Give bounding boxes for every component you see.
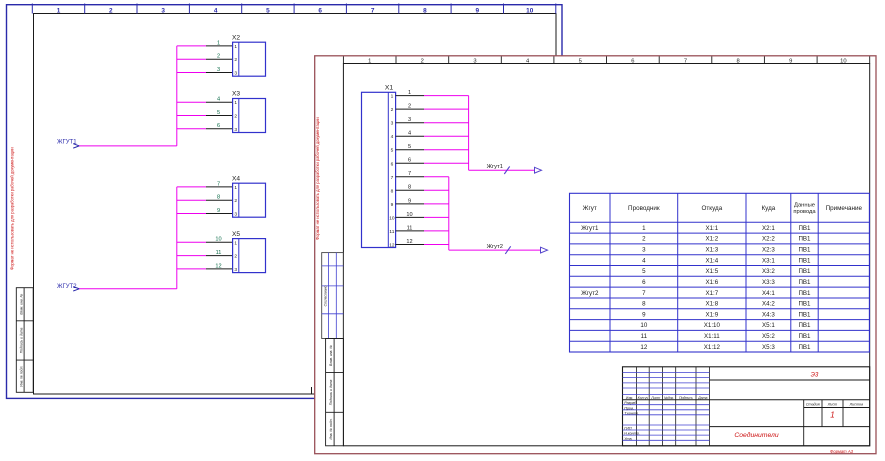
svg-text:Жгут2: Жгут2 — [487, 244, 503, 250]
wire 1 harness to X2 pin — [177, 40, 233, 46]
svg-text:9: 9 — [217, 208, 220, 214]
svg-text:7: 7 — [642, 290, 646, 297]
svg-text:Жгут2: Жгут2 — [581, 290, 599, 297]
svg-text:Подпись и дата: Подпись и дата — [19, 327, 23, 353]
svg-text:X5:1: X5:1 — [762, 322, 775, 329]
svg-text:Пров.: Пров. — [624, 406, 634, 410]
svg-text:1: 1 — [234, 240, 237, 246]
svg-text:ПВ1: ПВ1 — [798, 301, 811, 308]
svg-text:3: 3 — [234, 267, 237, 273]
harness wire Жгут2 with label, slash and arrow — [449, 244, 548, 254]
svg-text:9: 9 — [408, 198, 411, 204]
wire 4 harness to X3 pin — [177, 97, 233, 103]
svg-text:5: 5 — [217, 110, 220, 116]
svg-text:ПВ1: ПВ1 — [798, 225, 811, 232]
svg-text:5: 5 — [266, 8, 270, 15]
svg-text:6: 6 — [642, 279, 646, 286]
svg-text:11: 11 — [216, 250, 222, 256]
svg-text:2: 2 — [109, 8, 113, 15]
svg-text:ПВ1: ПВ1 — [798, 268, 811, 275]
svg-text:5: 5 — [642, 268, 646, 275]
svg-text:8: 8 — [217, 195, 220, 201]
svg-text:1: 1 — [234, 185, 237, 191]
svg-text:ГИП: ГИП — [624, 427, 632, 431]
svg-text:ПВ1: ПВ1 — [798, 322, 811, 329]
svg-text:7: 7 — [371, 8, 375, 15]
svg-text:7: 7 — [391, 175, 394, 181]
svg-text:провода: провода — [793, 209, 816, 215]
title block header texts — [624, 396, 863, 441]
svg-text:Подпись: Подпись — [679, 396, 693, 400]
svg-text:Формат А3: Формат А3 — [830, 449, 854, 454]
svg-text:8: 8 — [423, 8, 427, 15]
svg-text:Взам. инв. №: Взам. инв. № — [329, 345, 333, 366]
wire 1 X1 pin 1 to harness — [396, 90, 469, 96]
svg-text:10: 10 — [526, 8, 534, 15]
svg-text:X3:2: X3:2 — [762, 268, 775, 275]
svg-text:Взам. инв. №: Взам. инв. № — [19, 293, 23, 314]
svg-text:X1:2: X1:2 — [705, 236, 718, 243]
svg-text:Изм.: Изм. — [626, 396, 633, 400]
svg-text:7: 7 — [684, 58, 687, 64]
back sheet inner frame (black) — [34, 14, 557, 395]
svg-text:X4:2: X4:2 — [762, 301, 775, 308]
svg-text:1: 1 — [234, 100, 237, 106]
svg-text:Т.контр.: Т.контр. — [624, 411, 639, 415]
svg-text:X1:6: X1:6 — [705, 279, 718, 286]
svg-text:Жгут: Жгут — [583, 205, 597, 212]
svg-text:3: 3 — [642, 247, 646, 254]
svg-text:ЖГУТ1: ЖГУТ1 — [57, 140, 77, 146]
svg-text:X5: X5 — [232, 231, 240, 238]
svg-text:X2:3: X2:3 — [762, 247, 775, 254]
wire 10 harness to X5 pin — [177, 237, 233, 243]
svg-text:Лист: Лист — [827, 403, 838, 407]
svg-text:X5:2: X5:2 — [762, 333, 775, 340]
node ЖГУТ2 arrow — [73, 287, 79, 291]
svg-text:ПВ1: ПВ1 — [798, 311, 811, 318]
svg-text:6: 6 — [631, 58, 634, 64]
wire 2 X1 pin 2 to harness — [396, 104, 469, 110]
svg-text:1: 1 — [408, 90, 411, 96]
wiring table grid — [570, 193, 870, 352]
svg-text:X2:1: X2:1 — [762, 225, 775, 232]
wire 6 X1 pin 6 to harness — [396, 158, 469, 164]
svg-text:2: 2 — [391, 107, 394, 113]
wire 7 harness to X4 pin — [177, 181, 233, 187]
svg-text:Проводник: Проводник — [628, 205, 660, 212]
svg-text:Разраб.: Разраб. — [624, 401, 637, 405]
svg-text:6: 6 — [217, 123, 220, 129]
svg-text:X3:3: X3:3 — [762, 279, 775, 286]
svg-text:X3: X3 — [232, 91, 240, 98]
front sheet inner frame (black) — [343, 64, 869, 446]
svg-text:4: 4 — [217, 97, 220, 103]
svg-text:Дата: Дата — [697, 396, 707, 400]
svg-text:5: 5 — [408, 144, 411, 150]
svg-text:10: 10 — [640, 322, 647, 329]
svg-text:X1:7: X1:7 — [705, 290, 718, 297]
wire 2 harness to X2 pin — [177, 54, 233, 60]
svg-text:X4:1: X4:1 — [762, 290, 775, 297]
svg-text:ПВ1: ПВ1 — [798, 247, 811, 254]
wiring table header — [583, 203, 863, 216]
svg-text:2: 2 — [234, 198, 237, 204]
connector X3 — [232, 91, 266, 133]
back sheet title block edge — [311, 387, 313, 394]
svg-text:Соединители: Соединители — [734, 431, 778, 439]
svg-text:4: 4 — [391, 134, 394, 140]
title block frame — [623, 367, 870, 446]
back sheet outer border (blue) — [7, 5, 563, 399]
svg-text:8: 8 — [391, 188, 394, 194]
svg-text:12: 12 — [406, 239, 412, 245]
svg-text:1: 1 — [368, 58, 371, 64]
svg-text:3: 3 — [217, 67, 220, 73]
svg-text:8: 8 — [642, 301, 646, 308]
wire 4 X1 pin 4 to harness — [396, 131, 469, 137]
svg-text:1: 1 — [642, 225, 646, 232]
svg-text:X5:3: X5:3 — [762, 344, 775, 351]
wire 8 X1 pin 8 to harness — [396, 185, 449, 191]
harness bus Жгут2 vertical — [448, 177, 450, 250]
wire 9 harness to X4 pin — [177, 208, 233, 214]
svg-text:5: 5 — [579, 58, 582, 64]
svg-text:X1:10: X1:10 — [704, 322, 721, 329]
svg-text:12: 12 — [640, 344, 647, 351]
wire 7 X1 pin 7 to harness — [396, 171, 449, 177]
harness wire ЖГУТ1 — [79, 145, 177, 147]
wire 5 X1 pin 5 to harness — [396, 144, 469, 150]
svg-text:2: 2 — [421, 58, 424, 64]
svg-text:Согласовано: Согласовано — [323, 286, 327, 307]
wire 11 X1 pin 11 to harness — [396, 225, 449, 231]
front sheet approval mini table — [322, 253, 344, 339]
svg-text:10: 10 — [406, 212, 412, 218]
svg-text:2: 2 — [234, 114, 237, 120]
svg-text:8: 8 — [736, 58, 739, 64]
svg-text:2: 2 — [642, 236, 646, 243]
svg-text:2: 2 — [217, 54, 220, 60]
svg-text:ПВ1: ПВ1 — [798, 257, 811, 264]
svg-text:X1: X1 — [385, 84, 394, 91]
svg-text:1: 1 — [234, 44, 237, 50]
svg-text:7: 7 — [217, 181, 220, 187]
node ЖГУТ1 arrow — [73, 144, 79, 148]
svg-text:X1:4: X1:4 — [705, 257, 718, 264]
svg-text:10: 10 — [215, 237, 221, 243]
connector X2 — [232, 34, 266, 76]
connector X4 — [232, 175, 266, 217]
svg-text:11: 11 — [641, 333, 648, 340]
svg-text:5: 5 — [391, 148, 394, 154]
svg-text:Э3: Э3 — [811, 372, 819, 379]
svg-text:ПВ1: ПВ1 — [798, 344, 811, 351]
harness bus ЖГУТ1 vertical — [176, 46, 178, 146]
wire 3 harness to X2 pin — [177, 67, 233, 73]
svg-text:4: 4 — [214, 8, 218, 15]
svg-text:X4:3: X4:3 — [762, 311, 775, 318]
svg-text:6: 6 — [318, 8, 322, 15]
svg-text:3: 3 — [391, 121, 394, 127]
harness bus ЖГУТ2 vertical — [176, 187, 178, 289]
svg-text:12: 12 — [215, 263, 221, 269]
svg-text:Инв. № подл.: Инв. № подл. — [329, 418, 333, 439]
svg-text:ПВ1: ПВ1 — [798, 236, 811, 243]
svg-text:3: 3 — [234, 127, 237, 133]
front sheet top ruler numbers — [368, 58, 847, 64]
svg-text:Кол.уч: Кол.уч — [638, 396, 649, 400]
svg-text:X2: X2 — [232, 34, 240, 41]
svg-text:4: 4 — [642, 257, 646, 264]
back sheet margin stamp cells — [16, 288, 33, 393]
svg-text:9: 9 — [476, 8, 480, 15]
svg-text:9: 9 — [391, 202, 394, 208]
svg-text:X1:5: X1:5 — [705, 268, 718, 275]
wire 12 harness to X5 pin — [177, 263, 233, 269]
svg-text:Лист: Лист — [650, 396, 660, 400]
harness bus Жгут1 vertical — [468, 96, 470, 171]
svg-text:X2:2: X2:2 — [762, 236, 775, 243]
back sheet top ruler ticks — [32, 4, 556, 14]
svg-text:2: 2 — [234, 57, 237, 63]
wire 8 harness to X4 pin — [177, 195, 233, 201]
svg-text:3: 3 — [234, 212, 237, 218]
svg-text:Подпись и дата: Подпись и дата — [329, 379, 333, 405]
svg-text:11: 11 — [407, 225, 413, 231]
svg-text:11: 11 — [389, 229, 394, 235]
svg-text:Жгут1: Жгут1 — [581, 225, 599, 232]
svg-text:Инв. № подл.: Инв. № подл. — [19, 366, 23, 387]
svg-text:3: 3 — [234, 71, 237, 77]
svg-text:Формат не использовать для раз: Формат не использовать для разработки ра… — [315, 117, 320, 240]
svg-text:ПВ1: ПВ1 — [798, 279, 811, 286]
svg-text:2: 2 — [234, 254, 237, 260]
svg-text:Н.контр.: Н.контр. — [624, 432, 640, 436]
svg-text:Утв.: Утв. — [624, 437, 632, 441]
svg-text:3: 3 — [408, 117, 411, 123]
front sheet outer border (dark red) with white fill — [315, 56, 876, 454]
svg-text:1: 1 — [391, 94, 394, 100]
wire 5 harness to X3 pin — [177, 110, 233, 116]
svg-text:12: 12 — [389, 243, 395, 249]
svg-text:ПВ1: ПВ1 — [798, 290, 811, 297]
svg-text:ПВ1: ПВ1 — [798, 333, 811, 340]
back sheet top ruler numbers — [57, 8, 534, 15]
svg-text:6: 6 — [408, 158, 411, 164]
svg-text:X1:11: X1:11 — [704, 333, 720, 340]
wire 11 harness to X5 pin — [177, 250, 233, 256]
svg-text:3: 3 — [161, 8, 165, 15]
svg-text:8: 8 — [408, 185, 411, 191]
svg-text:X1:3: X1:3 — [705, 247, 718, 254]
svg-text:X1:9: X1:9 — [705, 311, 718, 318]
svg-text:1: 1 — [57, 8, 61, 15]
svg-text:Стадия: Стадия — [806, 403, 820, 407]
svg-text:7: 7 — [408, 171, 411, 177]
wire 10 X1 pin 10 to harness — [396, 212, 449, 218]
svg-text:10: 10 — [840, 58, 846, 64]
connector X1 — [362, 84, 396, 248]
svg-text:Формат не использовать для раз: Формат не использовать для разработки ра… — [9, 147, 14, 270]
svg-text:№док.: №док. — [664, 396, 674, 400]
svg-text:1: 1 — [830, 411, 834, 420]
harness wire ЖГУТ2 — [79, 288, 177, 290]
front sheet margin stamp cells — [326, 339, 344, 446]
svg-text:1: 1 — [217, 40, 220, 46]
wire 6 harness to X3 pin — [177, 123, 233, 129]
wiring table rows — [581, 225, 811, 351]
svg-text:Данные: Данные — [794, 203, 815, 209]
svg-text:Примечание: Примечание — [826, 205, 863, 212]
svg-text:X1:12: X1:12 — [704, 344, 721, 351]
svg-text:X4: X4 — [232, 175, 240, 182]
svg-text:Листов: Листов — [849, 403, 864, 407]
svg-text:3: 3 — [473, 58, 476, 64]
svg-text:Куда: Куда — [762, 205, 776, 212]
svg-text:4: 4 — [408, 131, 411, 137]
svg-text:Откуда: Откуда — [701, 205, 722, 212]
svg-text:6: 6 — [391, 161, 394, 167]
connector X5 — [232, 231, 266, 273]
wire 9 X1 pin 9 to harness — [396, 198, 449, 204]
svg-text:10: 10 — [389, 215, 395, 221]
svg-text:X1:8: X1:8 — [705, 301, 718, 308]
svg-text:Жгут1: Жгут1 — [487, 164, 503, 170]
svg-text:9: 9 — [789, 58, 792, 64]
svg-text:X3:1: X3:1 — [762, 257, 775, 264]
svg-text:2: 2 — [408, 104, 411, 110]
wire 12 X1 pin 12 to harness — [396, 239, 449, 245]
front sheet top ruler ticks — [343, 56, 869, 63]
svg-text:9: 9 — [642, 311, 646, 318]
wire 3 X1 pin 3 to harness — [396, 117, 469, 123]
svg-text:X1:1: X1:1 — [705, 225, 718, 232]
harness wire Жгут1 with label, slash and arrow — [469, 164, 542, 174]
